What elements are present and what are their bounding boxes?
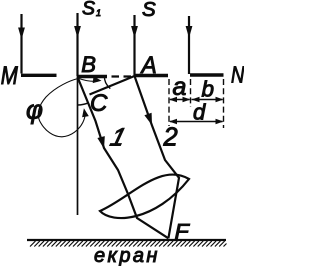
svg-text:A: A xyxy=(140,51,157,78)
svg-text:b: b xyxy=(202,77,215,102)
arrowhead of phi loop pointing at angle B xyxy=(82,108,89,117)
svg-text:2: 2 xyxy=(163,124,178,152)
incident ray right (unlabeled) xyxy=(188,16,190,74)
incident ray left (unlabeled) xyxy=(20,14,22,74)
svg-text:S: S xyxy=(82,0,95,19)
arrowhead on ray 1 xyxy=(97,136,104,149)
svg-text:S: S xyxy=(142,0,156,21)
dimension arrow d xyxy=(170,121,223,123)
converging lens xyxy=(100,175,189,219)
perpendicular line A to C xyxy=(90,76,135,95)
svg-text:C: C xyxy=(90,90,108,117)
arrowhead on ray 2 xyxy=(144,113,152,126)
svg-text:1: 1 xyxy=(96,8,101,18)
diffracted ray 2 from A to F xyxy=(135,76,180,238)
incident ray S xyxy=(133,15,135,76)
angle arc at B between vertical and ray 1 xyxy=(78,103,89,105)
barrier segment at N xyxy=(190,73,224,76)
phi callout loop (thin open ellipse) xyxy=(38,78,98,136)
barrier segment at A xyxy=(135,74,169,77)
arrowhead of left incident ray xyxy=(18,28,25,40)
dashed vertical at N barrier right end xyxy=(223,79,225,128)
svg-text:a: a xyxy=(173,73,187,101)
dimension arrow b xyxy=(192,99,223,101)
dashed vertical at slit left edge xyxy=(168,79,170,126)
svg-text:B: B xyxy=(81,52,96,77)
screen line xyxy=(27,239,226,241)
svg-text:екран: екран xyxy=(94,245,160,266)
dimension arrow a xyxy=(170,99,190,101)
angle arc at A between BA and AC xyxy=(104,76,110,88)
incident ray S1 xyxy=(76,13,78,76)
arrowhead of ray S xyxy=(131,26,138,38)
svg-text:φ: φ xyxy=(26,95,43,125)
arrowhead of ray S1 xyxy=(74,26,81,38)
barrier segment M xyxy=(21,74,57,77)
dashed wavefront B to A xyxy=(112,75,132,77)
dashed vertical between a and b xyxy=(190,79,192,107)
svg-text:N: N xyxy=(231,62,244,87)
diffracted ray 1 from B to F xyxy=(78,77,169,238)
svg-text:M: M xyxy=(1,61,19,89)
svg-text:d: d xyxy=(193,100,206,125)
continuation line of S1 below B xyxy=(77,76,79,215)
screen hatching xyxy=(30,241,227,247)
arrowhead of phi loop pointing at angle A xyxy=(93,76,102,83)
svg-text:1: 1 xyxy=(107,124,128,152)
barrier segment at B xyxy=(77,75,107,78)
arrowhead of right incident ray xyxy=(186,26,193,38)
